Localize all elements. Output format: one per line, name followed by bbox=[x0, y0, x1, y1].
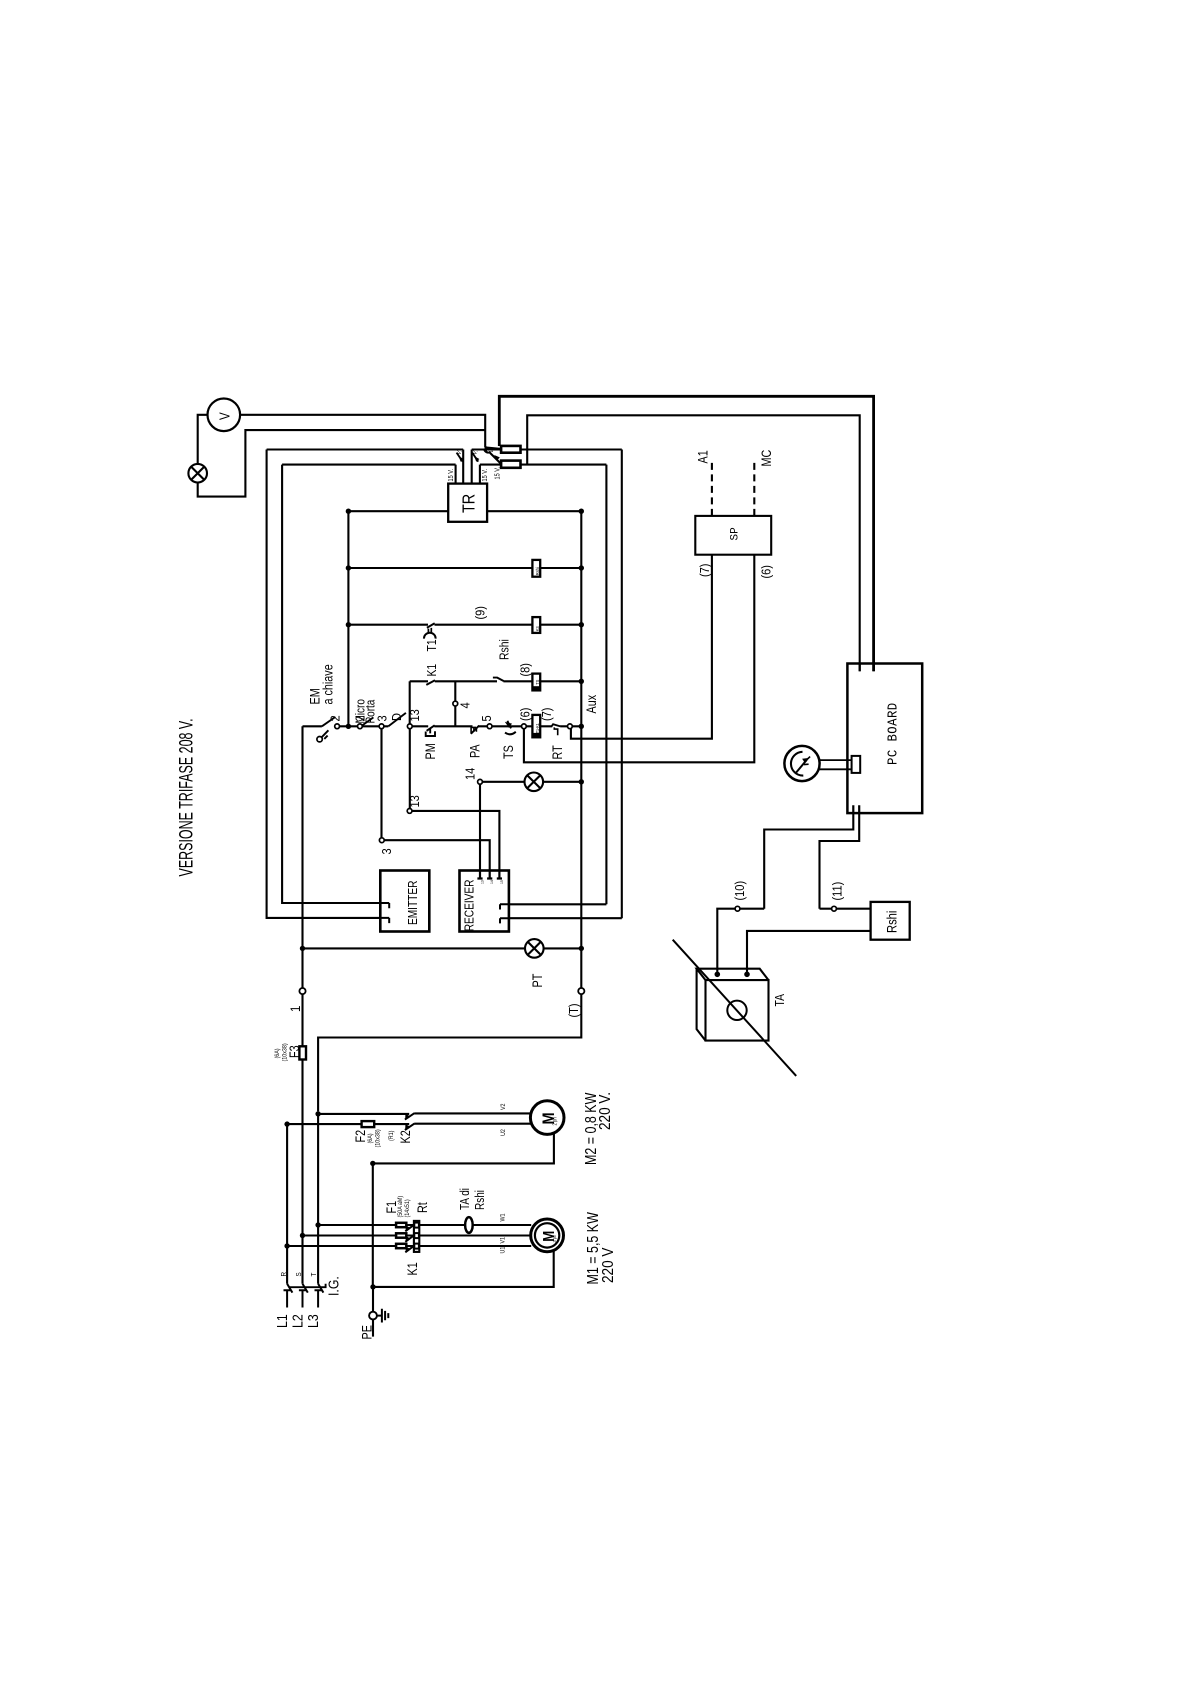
svg-text:a chiave: a chiave bbox=[320, 664, 335, 704]
fuse box TS (black end) bbox=[532, 674, 540, 691]
wire 3 drop bbox=[380, 729, 382, 838]
junction dot PE bbox=[370, 1284, 375, 1289]
ground symbol bbox=[377, 1309, 388, 1323]
terminal circle 4 bbox=[453, 701, 458, 706]
motor M2 bbox=[530, 1101, 564, 1135]
junction dot F2 tap bbox=[284, 1121, 289, 1126]
svg-text:(6): (6) bbox=[517, 708, 532, 721]
fuse box Rshi bbox=[532, 560, 540, 577]
svg-text:T: T bbox=[311, 1273, 318, 1277]
fuse F2 bbox=[362, 1121, 375, 1127]
junction dot lamp-Aux bbox=[579, 779, 584, 784]
wire 13 drop (below circle 13) bbox=[409, 729, 411, 809]
svg-text:VERSIONE TRIFASE 208 V.: VERSIONE TRIFASE 208 V. bbox=[176, 718, 197, 876]
wire 15V rail upper left segment (to TR pin2) bbox=[267, 448, 464, 450]
terminal circle 5 bbox=[487, 724, 492, 729]
fuse F3 bbox=[299, 1046, 306, 1059]
IG linkage bar bbox=[289, 1284, 325, 1288]
wire L3 rail down to IG bbox=[317, 1114, 319, 1284]
contact Rshi NC blade bbox=[493, 678, 504, 681]
wire M1 U1 bbox=[287, 1245, 531, 1247]
svg-text:PE: PE bbox=[359, 1325, 374, 1339]
svg-text:W1: W1 bbox=[500, 1213, 506, 1221]
contact PA bbox=[471, 726, 479, 734]
svg-text:(8): (8) bbox=[518, 663, 533, 676]
svg-text:(10x38): (10x38) bbox=[282, 1043, 288, 1061]
svg-text:15 V.: 15 V. bbox=[447, 469, 455, 482]
receiver top pin posts bbox=[477, 871, 502, 879]
svg-text:220 V.: 220 V. bbox=[597, 1092, 614, 1130]
svg-text:220 V: 220 V bbox=[600, 1247, 617, 1283]
motor M1 double circle bbox=[531, 1219, 564, 1252]
emitter rail left inner (x=282.1) bbox=[282, 465, 380, 903]
fuse F1c bbox=[396, 1244, 406, 1248]
terminal circle (6) bbox=[522, 724, 527, 729]
receiver rail right outer (x=621.8) bbox=[621, 450, 623, 919]
TA diagonal wire bbox=[673, 940, 797, 1076]
contact K1a blade bbox=[405, 1225, 414, 1231]
receiver rail right inner (x=606.4) bbox=[605, 465, 607, 905]
wire (10) segment bbox=[717, 909, 764, 972]
micro porta blade bbox=[362, 717, 373, 725]
svg-text:RECEIVER: RECEIVER bbox=[462, 880, 476, 932]
svg-text:4: 4 bbox=[458, 702, 473, 708]
svg-text:K1: K1 bbox=[425, 664, 439, 677]
wire top secondary to PC board (long top run) bbox=[499, 396, 873, 671]
svg-text:I.G.: I.G. bbox=[326, 1276, 342, 1296]
svg-text:15: 15 bbox=[500, 880, 504, 884]
terminal circle T bbox=[578, 988, 584, 994]
svg-text:S: S bbox=[296, 1272, 303, 1277]
svg-text:Rshi: Rshi bbox=[497, 639, 511, 660]
control bus left (x=348.4) bbox=[347, 511, 349, 726]
svg-text:3: 3 bbox=[379, 848, 394, 854]
svg-text:(11): (11) bbox=[829, 882, 844, 901]
terminal circle 7end bbox=[568, 724, 573, 729]
junction dot bus348 main bbox=[346, 724, 351, 729]
TA hole bbox=[727, 1001, 746, 1020]
junction dot M2 return corner bbox=[370, 1161, 375, 1166]
receiver right pin hooks bbox=[500, 904, 509, 923]
lamp 14 (circle-X) bbox=[525, 773, 544, 792]
selector jaw arc at fuse1 feed wire bbox=[485, 446, 487, 452]
wire TR left to control bus bbox=[348, 510, 448, 512]
wire 3b to receiver top bbox=[384, 840, 490, 870]
svg-text:TA di: TA di bbox=[459, 1188, 472, 1210]
svg-text:F3: F3 bbox=[287, 1045, 302, 1058]
wire 14 lamp line bbox=[482, 781, 581, 783]
EMITTER box bbox=[380, 871, 429, 932]
svg-text:1: 1 bbox=[288, 1006, 303, 1012]
junction dot W1 tap bbox=[315, 1222, 320, 1227]
svg-text:PM: PM bbox=[423, 743, 438, 759]
terminal circle (11) bbox=[832, 906, 837, 911]
gauge stem to pc board bbox=[820, 760, 852, 769]
wire (7) to SP bbox=[571, 555, 712, 739]
wire PE drop bbox=[372, 1287, 374, 1337]
svg-text:14: 14 bbox=[462, 767, 477, 780]
wire node4 stub bbox=[454, 681, 456, 726]
pc board top pin stubs bbox=[860, 664, 874, 672]
svg-text:(T): (T) bbox=[566, 1003, 581, 1017]
emitter rail left outer (x=266.6) bbox=[267, 450, 381, 918]
svg-text:2 ph: 2 ph bbox=[552, 1117, 557, 1126]
wire receiver pin1 to rail bbox=[509, 903, 607, 905]
svg-text:PT: PT bbox=[530, 973, 545, 987]
key symbol EM bbox=[317, 737, 322, 742]
svg-text:3: 3 bbox=[374, 715, 389, 721]
svg-text:V: V bbox=[216, 412, 233, 420]
svg-text:SP: SP bbox=[730, 527, 742, 541]
terminal circle 14 bbox=[478, 779, 483, 784]
wire L1 rail bbox=[286, 1124, 288, 1284]
svg-text:D: D bbox=[389, 713, 404, 721]
svg-text:(9): (9) bbox=[473, 606, 488, 619]
wire (9) line y=624.7 bbox=[348, 624, 581, 626]
pc board bottom pin stubs bbox=[853, 805, 859, 813]
junction TR-left bus bbox=[346, 509, 351, 514]
contact K2 blade top bbox=[405, 1113, 415, 1119]
svg-text:K3: K3 bbox=[534, 626, 539, 631]
svg-text:U1: U1 bbox=[500, 1247, 506, 1254]
contact K1b blade bbox=[405, 1235, 414, 1241]
svg-text:15 V.: 15 V. bbox=[481, 469, 489, 482]
wire 14 to receiver top bbox=[479, 784, 481, 870]
selector blade to fuse2 with arrowhead bbox=[490, 453, 501, 464]
wire 15V rail lower right segment (fuse2 to receiver rail) bbox=[480, 464, 607, 466]
fuse F1b bbox=[396, 1233, 406, 1237]
svg-text:(10x38): (10x38) bbox=[375, 1129, 381, 1147]
contact T1 blade bbox=[427, 623, 435, 627]
svg-text:(6A): (6A) bbox=[274, 1048, 280, 1058]
wire PT line y=948.4 bbox=[303, 947, 582, 949]
svg-text:RT: RT bbox=[550, 745, 565, 760]
svg-text:T1-K1: T1-K1 bbox=[534, 722, 539, 733]
PE terminal circle bbox=[369, 1312, 377, 1320]
RECEIVER box bbox=[460, 871, 509, 932]
fuse box T1-K1 bbox=[532, 715, 540, 737]
svg-text:K1: K1 bbox=[405, 1262, 420, 1275]
voltmeter V bbox=[208, 399, 241, 432]
IG switch pole S bbox=[299, 1284, 308, 1308]
PC BOARD box bbox=[847, 664, 922, 814]
svg-text:13: 13 bbox=[407, 709, 422, 722]
svg-text:TS: TS bbox=[534, 680, 539, 685]
wire (6) to SP bbox=[524, 555, 754, 763]
gauge meter bbox=[784, 746, 819, 781]
wire Aux bus lower + (T) run bbox=[318, 994, 581, 1111]
terminal circle 13b bbox=[407, 809, 412, 814]
svg-text:V1: V1 bbox=[500, 1237, 506, 1244]
thermal relay Rt box bbox=[414, 1221, 419, 1252]
dashed lead A1 bbox=[711, 461, 713, 516]
TR tap blade 2 with arrowhead bbox=[472, 453, 478, 462]
wire (8) line y=681.3 bbox=[410, 680, 582, 682]
svg-text:(10): (10) bbox=[732, 881, 747, 901]
emitter pin hooks bbox=[380, 903, 389, 923]
svg-text:TR: TR bbox=[459, 494, 479, 513]
terminal circle 2b bbox=[358, 724, 363, 729]
svg-text:TS: TS bbox=[501, 745, 516, 759]
wire 13b to receiver top bbox=[412, 811, 499, 871]
wire second secondary run to PC board bbox=[527, 415, 860, 671]
svg-text:(6): (6) bbox=[759, 565, 774, 578]
Aux bus (x=581.3) upper bbox=[580, 511, 582, 989]
wire pcboard pin to (11) bbox=[820, 813, 860, 909]
wire M1 V1 bbox=[303, 1234, 531, 1236]
svg-text:PC BOARD: PC BOARD bbox=[885, 702, 901, 765]
wire voltmeter right to selector pivot bbox=[240, 415, 485, 448]
svg-text:(50A aM): (50A aM) bbox=[398, 1196, 404, 1218]
wire M2 bottom (U2) with F2 bbox=[287, 1123, 531, 1126]
svg-text:L1: L1 bbox=[274, 1314, 290, 1328]
TR tap blade 1 with arrowhead bbox=[457, 453, 463, 462]
svg-text:(7): (7) bbox=[539, 708, 554, 721]
svg-text:13: 13 bbox=[481, 880, 485, 884]
door switch D blade bbox=[388, 713, 406, 726]
transformer TR box bbox=[448, 484, 487, 522]
Rshi box bbox=[871, 902, 910, 940]
SP box bbox=[695, 516, 771, 555]
svg-text:F1: F1 bbox=[384, 1201, 399, 1214]
svg-text:U2: U2 bbox=[501, 1129, 507, 1136]
wire L2 rail below terminal 1 bbox=[301, 994, 303, 1046]
svg-text:(6A): (6A) bbox=[368, 1133, 374, 1143]
svg-text:2: 2 bbox=[328, 715, 343, 721]
contact TS arrow bbox=[505, 722, 512, 728]
terminal circle 2a bbox=[335, 724, 340, 729]
svg-text:R: R bbox=[281, 1272, 288, 1277]
dashed lead MC bbox=[753, 459, 755, 516]
svg-text:EMITTER: EMITTER bbox=[406, 881, 420, 925]
TA box 3d bbox=[706, 980, 769, 1041]
svg-text:Rt: Rt bbox=[415, 1202, 430, 1213]
wire (8) left drop to node 13 bbox=[409, 681, 411, 724]
junction TR-right bus bbox=[579, 509, 584, 514]
svg-text:(7): (7) bbox=[697, 564, 712, 577]
terminal circle 3b bbox=[379, 838, 384, 843]
junction dot U1 tap bbox=[284, 1243, 289, 1248]
junction dot V1 tap bbox=[300, 1233, 305, 1238]
wire Rshi-fuse line y=568 bbox=[348, 567, 581, 569]
TA terminal dots bbox=[715, 972, 721, 978]
wire M2 top (V2) bbox=[318, 1112, 531, 1115]
svg-text:3 ph: 3 ph bbox=[552, 1234, 557, 1242]
main control line y=726.3 bbox=[303, 725, 582, 727]
terminal circle (10) bbox=[735, 906, 740, 911]
svg-text:Rshi: Rshi bbox=[884, 911, 899, 933]
wire TR right to Aux bus corner bbox=[487, 510, 581, 512]
IG switch pole T bbox=[315, 1284, 324, 1308]
wire receiver pin2 to rail bbox=[509, 917, 622, 919]
svg-text:K2: K2 bbox=[398, 1130, 413, 1143]
lamp L (circle-X) bbox=[188, 464, 207, 483]
key switch EM blade bbox=[322, 717, 336, 726]
contact PM bbox=[427, 725, 435, 731]
wire 15V rail lower left segment (to TR pin1) bbox=[282, 464, 456, 466]
wire M1 return bbox=[373, 1251, 554, 1287]
terminal circle 13 bbox=[407, 724, 412, 729]
contact RT thermal bbox=[552, 724, 561, 726]
fuse F-sec2 bbox=[501, 461, 520, 468]
junction dot M2 top tap bbox=[315, 1111, 320, 1116]
wire M1 W1 bbox=[318, 1224, 531, 1226]
svg-text:L3: L3 bbox=[305, 1314, 321, 1328]
svg-text:13: 13 bbox=[407, 795, 422, 808]
svg-text:F2: F2 bbox=[353, 1130, 368, 1143]
junction dot line (8) right bbox=[579, 679, 584, 684]
svg-text:(R1): (R1) bbox=[389, 1131, 395, 1141]
TR pin wires bbox=[456, 450, 480, 484]
svg-text:PA: PA bbox=[467, 744, 482, 758]
svg-text:(14x51): (14x51) bbox=[405, 1199, 411, 1217]
fuse F1a bbox=[396, 1223, 406, 1227]
svg-text:A1: A1 bbox=[695, 450, 710, 463]
left rail from main line (x=302.5) bbox=[301, 726, 303, 989]
fuse F-sec1 bbox=[501, 446, 520, 453]
wire Rshi to TA bbox=[747, 931, 871, 972]
selector jaw arc at voltmeter pivot bbox=[484, 449, 491, 453]
wire lamp bottom loop to selector bbox=[198, 430, 486, 497]
fuse box K3 coil bbox=[532, 617, 540, 633]
wire voltmeter left to lamp bbox=[198, 415, 208, 464]
svg-text:TA: TA bbox=[773, 994, 787, 1007]
svg-text:V2: V2 bbox=[501, 1103, 507, 1110]
svg-text:L2: L2 bbox=[289, 1314, 305, 1328]
svg-text:15 V.: 15 V. bbox=[494, 467, 502, 480]
junction dot main-Aux bbox=[579, 724, 584, 729]
wire 15V rail upper right segment (fuse1 to receiver rail) bbox=[472, 448, 622, 450]
lamp PT (circle-X) bbox=[525, 939, 544, 958]
wire L2 rail F3 down to IG bbox=[301, 1060, 303, 1284]
TA di Rshi oval bbox=[465, 1217, 473, 1233]
svg-text:5: 5 bbox=[479, 715, 494, 721]
contact K2 blade bottom bbox=[405, 1124, 415, 1130]
svg-text:T1: T1 bbox=[425, 639, 439, 651]
svg-text:14: 14 bbox=[490, 880, 494, 884]
contact K1 blade bbox=[426, 680, 435, 685]
contact T1 delay dome bbox=[424, 633, 436, 639]
terminal circle 3 bbox=[379, 724, 384, 729]
junction dots line (9) bbox=[346, 622, 351, 627]
selector blade V-to-fuse1 bbox=[485, 447, 501, 449]
wire pcboard pin to (10) bbox=[764, 813, 853, 909]
svg-text:MC: MC bbox=[759, 450, 774, 467]
contact K1c blade bbox=[405, 1246, 414, 1252]
svg-text:Aux: Aux bbox=[584, 695, 599, 714]
connector rect on pc board edge bbox=[852, 756, 861, 773]
svg-text:Rshi: Rshi bbox=[534, 567, 539, 575]
wire M2 return bbox=[373, 1133, 554, 1287]
junction dots line568 bbox=[346, 565, 351, 570]
terminal circle 1 bbox=[299, 988, 305, 994]
junction dots PT line bbox=[300, 946, 305, 951]
svg-text:Rshi: Rshi bbox=[474, 1190, 487, 1210]
wire (11) segment bbox=[820, 908, 871, 910]
IG switch pole R bbox=[284, 1284, 293, 1308]
